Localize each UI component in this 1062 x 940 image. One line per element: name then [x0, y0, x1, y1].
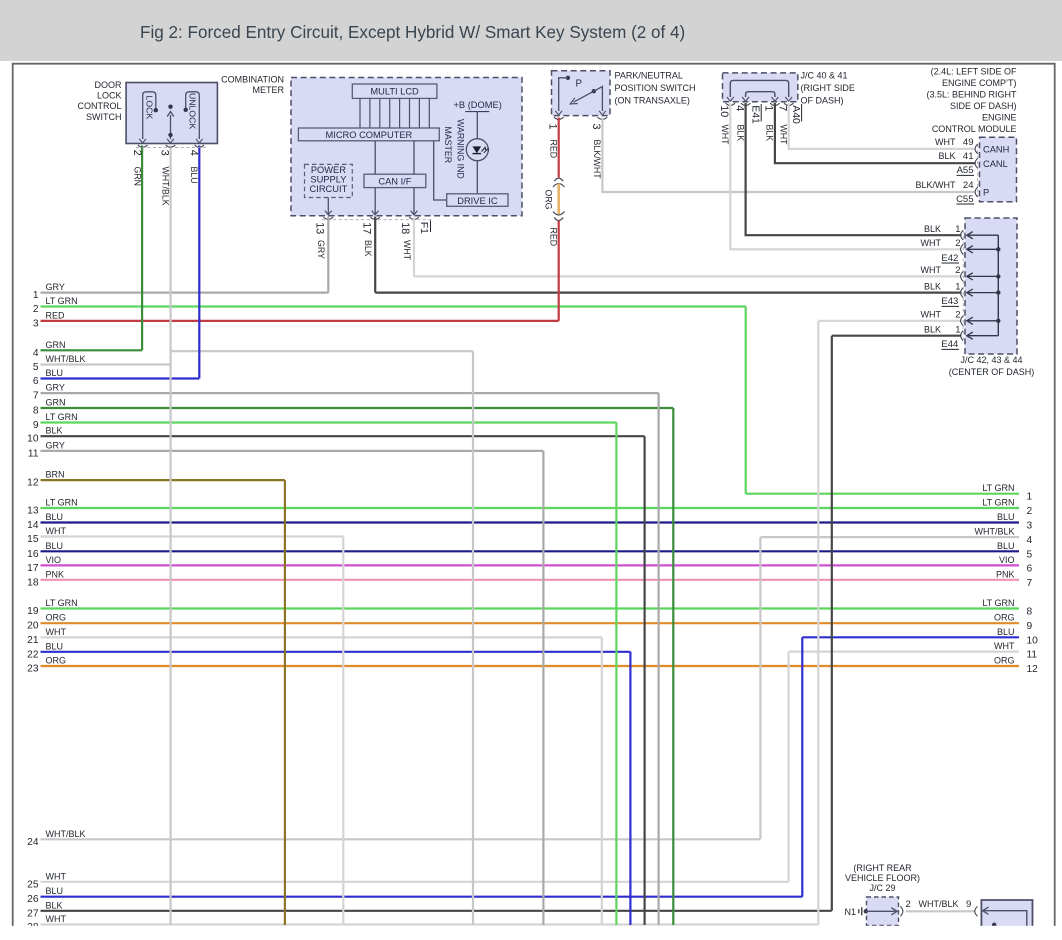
wire WHT pin10 to E42 — [730, 103, 961, 249]
svg-text:21: 21 — [27, 635, 39, 646]
svg-text:8: 8 — [1027, 607, 1033, 618]
svg-text:WHT: WHT — [46, 526, 67, 536]
wire BLK row10 drop — [643, 436, 645, 925]
wire switch common — [170, 115, 172, 139]
svg-text:10: 10 — [27, 434, 39, 445]
svg-text:CONTROL MODULE: CONTROL MODULE — [932, 124, 1017, 134]
svg-text:SWITCH: SWITCH — [86, 112, 122, 122]
wire left row 1 GRY — [41, 292, 329, 294]
pn switch lever — [592, 89, 596, 93]
wire left row 7 GRY — [41, 392, 659, 394]
wire WHT E43-2 — [414, 275, 962, 277]
wire BLU row22 drop — [629, 652, 631, 925]
svg-text:WHT: WHT — [720, 125, 730, 146]
svg-text:ORG: ORG — [46, 613, 67, 623]
svg-text:MULTI LCD: MULTI LCD — [370, 87, 419, 97]
wire WHT row25 riser — [787, 652, 789, 882]
svg-text:RED: RED — [549, 140, 559, 159]
svg-text:Fig 2: Forced Entry Circuit, E: Fig 2: Forced Entry Circuit, Except Hybr… — [140, 23, 685, 42]
svg-text:WHT: WHT — [46, 627, 67, 637]
svg-text:WHT: WHT — [46, 871, 67, 881]
wire left row 9 LT GRN — [41, 421, 617, 423]
svg-text:19: 19 — [27, 606, 39, 617]
svg-text:24: 24 — [963, 180, 974, 191]
svg-text:P: P — [576, 79, 583, 90]
wire WHT/BLK branch row4 — [171, 350, 473, 352]
svg-text:BLK/WHT: BLK/WHT — [915, 180, 956, 190]
svg-text:6: 6 — [33, 376, 39, 387]
svg-text:(3.5L: BEHIND RIGHT: (3.5L: BEHIND RIGHT — [926, 90, 1017, 100]
svg-text:CONTROL: CONTROL — [77, 101, 121, 111]
svg-text:OF DASH): OF DASH) — [801, 96, 844, 106]
svg-text:METER: METER — [253, 85, 285, 95]
svg-text:WHT/BLK: WHT/BLK — [46, 354, 86, 364]
wire BLU row26 riser — [801, 637, 803, 896]
svg-text:7: 7 — [1027, 578, 1033, 589]
svg-text:WHT: WHT — [921, 238, 942, 248]
svg-text:6: 6 — [1027, 563, 1033, 574]
wire RED pn drop — [558, 118, 560, 178]
svg-text:2: 2 — [955, 310, 960, 321]
svg-text:LOCK: LOCK — [97, 91, 122, 101]
svg-text:A40: A40 — [790, 105, 801, 124]
wire BLK pin1 to CANL — [775, 103, 976, 163]
wire left row 27 BLK — [41, 910, 832, 912]
svg-text:BLK: BLK — [938, 151, 955, 161]
wire right row 11 WHT — [789, 650, 1019, 652]
wire left row 6 BLU — [41, 377, 200, 379]
svg-text:1: 1 — [546, 124, 558, 130]
ecm pin housing dashes — [977, 145, 979, 198]
door lock control switch — [126, 83, 217, 144]
wire WHT pin18 drop — [413, 217, 415, 277]
wire left row 24 WHT/BLK — [41, 838, 761, 840]
meter pins — [325, 211, 332, 215]
svg-text:5: 5 — [33, 362, 39, 373]
svg-text:13: 13 — [314, 222, 326, 234]
wire left row 18 PNK — [41, 579, 1020, 581]
rear box internal wire — [984, 911, 1027, 926]
switch LOCK contact — [143, 92, 156, 139]
wire left row 14 BLU — [41, 521, 1020, 523]
svg-text:BRN: BRN — [46, 470, 65, 480]
svg-text:UNLOCK: UNLOCK — [188, 93, 198, 129]
svg-text:PARK/NEUTRAL: PARK/NEUTRAL — [615, 71, 683, 81]
wire BLK row27 riser — [831, 336, 833, 911]
svg-text:WHT: WHT — [779, 125, 789, 146]
switch UNLOCK contact — [186, 92, 200, 139]
svg-text:N1: N1 — [844, 907, 856, 917]
svg-text:GRN: GRN — [132, 167, 142, 187]
svg-text:LT GRN: LT GRN — [46, 296, 78, 306]
svg-text:P: P — [983, 188, 989, 198]
rear junction box — [981, 900, 1032, 926]
svg-text:26: 26 — [27, 894, 39, 905]
svg-text:LT GRN: LT GRN — [982, 498, 1014, 508]
svg-text:(ON TRANSAXLE): (ON TRANSAXLE) — [615, 96, 690, 106]
svg-text:18: 18 — [27, 577, 39, 588]
svg-text:10: 10 — [718, 105, 730, 117]
jc4244 pin WHT 2 y276.4 — [968, 275, 999, 277]
wire jc29 internal — [866, 910, 896, 912]
svg-text:F1: F1 — [418, 222, 429, 234]
wire left row 25 WHT — [41, 881, 789, 883]
svg-text:CANL: CANL — [983, 159, 1008, 169]
svg-text:LT GRN: LT GRN — [46, 412, 78, 422]
switch common contact pin3 — [168, 105, 172, 109]
svg-text:49: 49 — [963, 137, 974, 148]
svg-text:BLU: BLU — [997, 512, 1015, 522]
wire right row 4 WHT/BLK — [760, 536, 1019, 538]
svg-text:CANH: CANH — [983, 144, 1009, 154]
wire BLK/WHT pn path — [602, 118, 975, 193]
svg-text:J/C 42, 43 & 44: J/C 42, 43 & 44 — [960, 355, 1022, 365]
svg-text:E44: E44 — [941, 339, 958, 350]
wire canif to pin18 — [413, 188, 415, 216]
svg-text:2: 2 — [33, 304, 39, 315]
svg-text:BLK: BLK — [363, 240, 373, 257]
wire BLK pin4 to E42 — [746, 103, 962, 235]
svg-text:DRIVE IC: DRIVE IC — [457, 196, 498, 206]
wire E44 BLK1 — [832, 335, 962, 337]
svg-text:MASTER: MASTER — [443, 127, 453, 164]
wire WHT row28 riser — [817, 321, 819, 925]
wire left row 2 LT GRN — [41, 305, 746, 307]
wire mc to canif b — [413, 141, 415, 174]
svg-text:WHT: WHT — [921, 310, 942, 320]
wire left row 4 GRN — [41, 349, 143, 351]
svg-text:BLU: BLU — [189, 167, 199, 184]
wire WHT pin7 to CANH — [789, 103, 976, 149]
svg-text:3: 3 — [33, 318, 39, 329]
svg-text:ORG: ORG — [994, 656, 1015, 666]
svg-text:BLK: BLK — [735, 125, 745, 142]
svg-text:1: 1 — [955, 224, 960, 235]
svg-text:20: 20 — [27, 621, 39, 632]
svg-text:LOCK: LOCK — [144, 96, 154, 120]
svg-text:(2.4L: LEFT SIDE OF: (2.4L: LEFT SIDE OF — [931, 67, 1017, 77]
jc4244 pin housing dashes — [962, 231, 964, 341]
svg-text:GRY: GRY — [316, 240, 326, 259]
power supply circuit box — [305, 164, 353, 197]
wire led to drive ic — [476, 161, 478, 194]
svg-text:17: 17 — [27, 563, 39, 574]
svg-text:BLK: BLK — [765, 125, 775, 142]
wire mc to drive ic — [434, 141, 447, 200]
wire GRY row11 drop — [542, 451, 544, 925]
svg-text:BLU: BLU — [997, 627, 1015, 637]
wire WHT/BLK vertical x171 — [170, 146, 172, 926]
svg-text:2: 2 — [955, 238, 960, 249]
svg-text:LT GRN: LT GRN — [982, 598, 1014, 608]
svg-text:41: 41 — [963, 151, 974, 162]
wire WHT/BLK row24 riser — [759, 537, 761, 839]
wire GRY pin13 drop — [327, 217, 329, 293]
svg-text:LT GRN: LT GRN — [46, 498, 78, 508]
svg-text:WHT: WHT — [46, 914, 67, 924]
svg-text:ORG: ORG — [543, 190, 553, 210]
wire left row 22 BLU — [41, 651, 631, 653]
svg-text:ORG: ORG — [994, 613, 1015, 623]
combination meter — [291, 78, 522, 216]
svg-text:BLU: BLU — [46, 886, 64, 896]
jc4244 pin WHT 2 y320.8 — [968, 320, 999, 322]
pn P contact wire — [559, 78, 568, 111]
svg-text:ORG: ORG — [46, 656, 67, 666]
svg-text:J/C 40 & 41: J/C 40 & 41 — [801, 71, 848, 81]
wire right row 1 LT GRN — [746, 493, 1019, 495]
wire left row 21 WHT — [41, 636, 602, 638]
svg-text:DOOR: DOOR — [95, 80, 123, 90]
svg-text:WHT/BLK: WHT/BLK — [974, 527, 1014, 537]
svg-text:A55: A55 — [957, 165, 974, 176]
pn switch P contact — [566, 76, 570, 80]
svg-text:9: 9 — [33, 420, 39, 431]
wire RED pn lower — [558, 221, 560, 321]
svg-text:WHT: WHT — [921, 265, 942, 275]
ecm pins — [975, 144, 978, 154]
wire right row 10 BLU — [802, 636, 1019, 638]
wire canif to pin17 — [374, 188, 376, 216]
svg-text:BLU: BLU — [46, 641, 64, 651]
jc4244 pin BLK 1 y335.7 — [968, 335, 999, 337]
svg-text:24: 24 — [27, 837, 39, 848]
bottom clip — [0, 926, 1062, 940]
svg-text:E42: E42 — [941, 253, 958, 264]
svg-text:15: 15 — [27, 534, 39, 545]
wire left row 23 ORG — [41, 665, 1020, 667]
inline connector RED/ORG top — [554, 178, 563, 181]
wire GRN switch pin2 drop — [141, 146, 143, 351]
junction connector JC42-44 — [965, 218, 1017, 354]
svg-text:WHT: WHT — [994, 641, 1015, 651]
svg-text:PNK: PNK — [996, 569, 1015, 579]
svg-text:9: 9 — [966, 899, 971, 910]
svg-text:11: 11 — [1027, 650, 1038, 661]
svg-text:BLU: BLU — [46, 541, 64, 551]
jc4244 pin WHT 2 y249.3 — [968, 248, 999, 250]
wire WHT/BLK jc29 — [906, 910, 976, 912]
drive ic box — [447, 194, 508, 207]
jc4244 pin BLK 1 y292.6 — [968, 292, 999, 294]
svg-text:WHT: WHT — [402, 240, 412, 261]
wire left row 8 GRN — [41, 407, 674, 409]
svg-text:BLU: BLU — [46, 512, 64, 522]
svg-text:12: 12 — [27, 478, 39, 489]
pn lever wire — [594, 87, 603, 112]
svg-text:27: 27 — [27, 908, 39, 919]
svg-text:BLK: BLK — [924, 325, 941, 335]
svg-text:VIO: VIO — [46, 555, 62, 565]
svg-text:SUPPLY: SUPPLY — [310, 174, 346, 184]
can if box — [364, 174, 426, 187]
svg-text:3: 3 — [590, 124, 602, 130]
wire E44 WHT2 — [818, 320, 961, 322]
wire psc to pin13 — [327, 198, 329, 216]
svg-text:GRY: GRY — [46, 440, 65, 450]
wire BLK E43-1 — [375, 292, 961, 294]
junction connector JC29 — [867, 897, 899, 925]
svg-text:RED: RED — [549, 228, 559, 247]
wire left row 13 LT GRN — [41, 507, 1020, 509]
wire WHT row21 drop — [601, 637, 603, 925]
svg-text:12: 12 — [1027, 664, 1039, 675]
svg-text:WHT/BLK: WHT/BLK — [46, 829, 86, 839]
svg-text:COMBINATION: COMBINATION — [221, 75, 284, 85]
svg-text:2: 2 — [131, 150, 143, 156]
svg-text:2: 2 — [955, 265, 960, 276]
jc4244 pin BLK 1 y235.2 — [968, 234, 999, 236]
inline connector ORG/RED bottom — [553, 212, 564, 216]
svg-text:GRN: GRN — [46, 398, 66, 408]
svg-text:LT GRN: LT GRN — [982, 483, 1014, 493]
svg-text:BLU: BLU — [46, 368, 64, 378]
wire left row 17 VIO — [41, 564, 1020, 566]
svg-text:7: 7 — [776, 105, 788, 111]
svg-text:POWER: POWER — [311, 165, 346, 175]
wire BLU switch pin4 drop — [198, 146, 200, 379]
svg-text:GRY: GRY — [46, 282, 65, 292]
lcd to computer lines — [359, 98, 361, 128]
wire left row 16 BLU — [41, 550, 1020, 552]
svg-text:9: 9 — [1027, 621, 1033, 632]
svg-text:23: 23 — [27, 664, 39, 675]
svg-text:11: 11 — [28, 448, 39, 459]
svg-text:BLK/WHT: BLK/WHT — [592, 140, 602, 180]
svg-text:25: 25 — [27, 879, 39, 890]
svg-text:4: 4 — [733, 105, 745, 111]
svg-text:WHT: WHT — [935, 137, 956, 147]
multi lcd box — [352, 84, 437, 98]
svg-text:4: 4 — [33, 348, 39, 359]
wire BLK pin17 drop — [374, 217, 376, 293]
svg-text:18: 18 — [399, 222, 411, 234]
svg-text:1: 1 — [1027, 492, 1033, 503]
jc4244 bus — [997, 235, 999, 336]
svg-text:WHT/BLK: WHT/BLK — [160, 167, 170, 206]
wire mc to canif a — [374, 141, 376, 174]
svg-text:(CENTER OF DASH): (CENTER OF DASH) — [949, 367, 1035, 377]
svg-text:BLU: BLU — [997, 541, 1015, 551]
wire left row 11 GRY — [41, 450, 544, 452]
wire left row 10 BLK — [41, 435, 645, 437]
jc4041 inner bus — [746, 92, 775, 97]
svg-text:WARNING IND: WARNING IND — [455, 119, 465, 179]
wire LT GRN row9 drop — [615, 423, 617, 926]
jc4041 outer bus — [730, 80, 788, 97]
svg-text:(RIGHT REAR: (RIGHT REAR — [853, 863, 912, 873]
wire BRN row12 drop — [284, 480, 286, 925]
svg-text:4: 4 — [1027, 535, 1033, 546]
svg-text:C55: C55 — [956, 194, 973, 205]
svg-text:ENGINE: ENGINE — [982, 113, 1017, 123]
wire ORG inline — [557, 184, 560, 215]
micro computer box — [298, 128, 439, 141]
svg-text:13: 13 — [27, 506, 39, 517]
svg-text:14: 14 — [27, 520, 39, 531]
svg-text:10: 10 — [1027, 635, 1039, 646]
svg-text:1: 1 — [33, 290, 39, 301]
svg-text:17: 17 — [360, 222, 372, 234]
engine control module — [980, 137, 1017, 202]
svg-text:22: 22 — [27, 649, 39, 660]
wire left row 20 ORG — [41, 622, 1020, 624]
wire left row 28 WHT — [41, 923, 819, 925]
svg-text:BLK: BLK — [924, 281, 941, 291]
svg-text:5: 5 — [1027, 549, 1033, 560]
svg-text:POSITION SWITCH: POSITION SWITCH — [615, 83, 696, 93]
svg-text:4: 4 — [187, 150, 199, 156]
wire GRN row8 drop — [672, 408, 674, 925]
wire left row 5 WHT/BLK — [41, 363, 171, 365]
svg-text:ENGINE COMP’T): ENGINE COMP’T) — [942, 78, 1017, 88]
svg-text:CIRCUIT: CIRCUIT — [310, 184, 348, 194]
svg-text:WHT/BLK: WHT/BLK — [918, 899, 958, 909]
svg-text:1: 1 — [955, 325, 960, 336]
svg-text:CAN I/F: CAN I/F — [378, 177, 411, 187]
svg-text:+B (DOME): +B (DOME) — [454, 100, 502, 110]
wire LT GRN row2 drop — [745, 307, 747, 494]
svg-text:GRY: GRY — [46, 383, 65, 393]
wire GRY row7 drop — [657, 393, 659, 925]
svg-text:BLK: BLK — [46, 426, 63, 436]
svg-text:3: 3 — [1027, 521, 1033, 532]
svg-text:BLK: BLK — [46, 900, 63, 910]
park neutral position switch — [552, 71, 611, 116]
svg-text:(RIGHT SIDE: (RIGHT SIDE — [801, 83, 855, 93]
svg-text:8: 8 — [33, 406, 39, 417]
svg-text:3: 3 — [159, 150, 171, 156]
master warning ind LED — [466, 139, 488, 161]
svg-text:MICRO COMPUTER: MICRO COMPUTER — [326, 130, 413, 140]
svg-text:2: 2 — [906, 899, 911, 910]
svg-text:E41: E41 — [749, 105, 760, 124]
svg-text:SIDE OF DASH): SIDE OF DASH) — [950, 101, 1017, 111]
svg-text:RED: RED — [46, 310, 66, 320]
svg-text:2: 2 — [1027, 506, 1033, 517]
svg-text:BLK: BLK — [924, 224, 941, 234]
svg-text:J/C 29: J/C 29 — [869, 883, 895, 893]
svg-text:16: 16 — [27, 549, 39, 560]
wire left row 12 BRN — [41, 479, 285, 481]
svg-text:VIO: VIO — [999, 555, 1015, 565]
junction connector JC40-41 — [723, 73, 798, 102]
svg-text:VEHICLE FLOOR): VEHICLE FLOOR) — [845, 873, 920, 883]
wire WHT/BLK vertical x473 — [472, 351, 474, 925]
svg-text:PNK: PNK — [46, 569, 65, 579]
wire left row 15 WHT — [41, 535, 344, 537]
wire left row 26 BLU — [41, 896, 803, 898]
svg-text:E43: E43 — [941, 296, 958, 307]
header bar — [0, 0, 1062, 61]
svg-text:GRN: GRN — [46, 340, 66, 350]
svg-text:LT GRN: LT GRN — [46, 598, 78, 608]
svg-text:7: 7 — [33, 391, 39, 402]
wire left row 3 RED — [41, 320, 559, 322]
wire left row 19 LT GRN — [41, 607, 1020, 609]
svg-text:1: 1 — [955, 281, 960, 292]
wire dome to led — [476, 112, 478, 139]
wire WHT row15 drop — [342, 537, 344, 926]
svg-text:1: 1 — [763, 105, 775, 111]
